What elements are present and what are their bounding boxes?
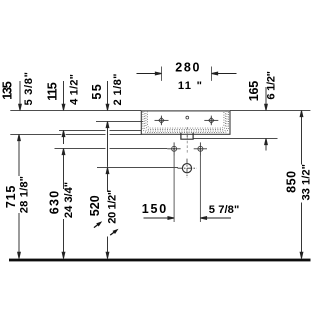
svg-text:28 1/8": 28 1/8" [19,176,31,213]
faucet hole right [204,116,218,126]
520 leader arrow 1 [93,220,104,230]
svg-text:33 1/2": 33 1/2" [301,164,313,201]
svg-text:630: 630 [48,191,62,215]
dimension line 850 vertical [300,111,303,259]
floor line [9,259,311,262]
center dashed line [186,127,188,153]
leader line C 115 [59,130,142,132]
svg-text:5 3/8": 5 3/8" [23,72,35,106]
leader line B faucet holes [96,121,143,123]
svg-text:6 1/2": 6 1/2" [266,71,278,100]
svg-text:55: 55 [90,84,104,99]
drain hole [178,159,197,178]
dimension 135 arrow down [19,81,109,110]
dimension 280 arrows [137,72,237,75]
leader line D sink bottom [10,134,141,136]
svg-text:24 3/4": 24 3/4" [63,182,75,218]
dimension line 55/520 vertical [106,122,109,259]
svg-text:20 1/2": 20 1/2" [106,190,118,224]
leader line A top edge left [10,110,141,112]
leader line E mounting holes [55,148,168,150]
dimension 165 arrows [265,87,268,151]
leader line F drain [97,167,178,169]
dimension line 715 vertical [18,135,21,259]
svg-text:11 ": 11 " [178,80,202,92]
svg-text:5 7/8": 5 7/8" [209,204,240,216]
leader line G siphon bottom [194,138,278,140]
svg-text:135: 135 [1,81,15,100]
washbasin outline [141,111,230,134]
dimension 115 arrow down [63,81,65,110]
svg-text:280: 280 [175,60,199,74]
dimension line 630 vertical [62,131,65,259]
dimension 55 arrow down [107,81,109,110]
basin inner bowl stipple [143,112,229,133]
520 leader arrow 2 [109,227,120,237]
svg-text:715: 715 [4,186,18,209]
svg-text:2 1/8": 2 1/8" [112,74,124,106]
svg-text:520: 520 [88,195,102,216]
mounting hole left [167,142,180,155]
svg-text:4 1/2": 4 1/2" [69,74,81,105]
faucet hole left [155,116,169,126]
mounting hole right [194,142,207,155]
drain fitting [181,133,193,139]
svg-text:150: 150 [142,202,167,216]
dimension 150 extension lines [174,156,200,223]
svg-text:850: 850 [285,171,299,193]
svg-text:165: 165 [247,81,261,102]
dimension 280 extension lines [162,67,212,81]
svg-text:115: 115 [45,82,59,101]
dimension 150 arrows [144,217,232,220]
leader line A top edge right [230,110,310,112]
overflow circle [186,116,189,119]
